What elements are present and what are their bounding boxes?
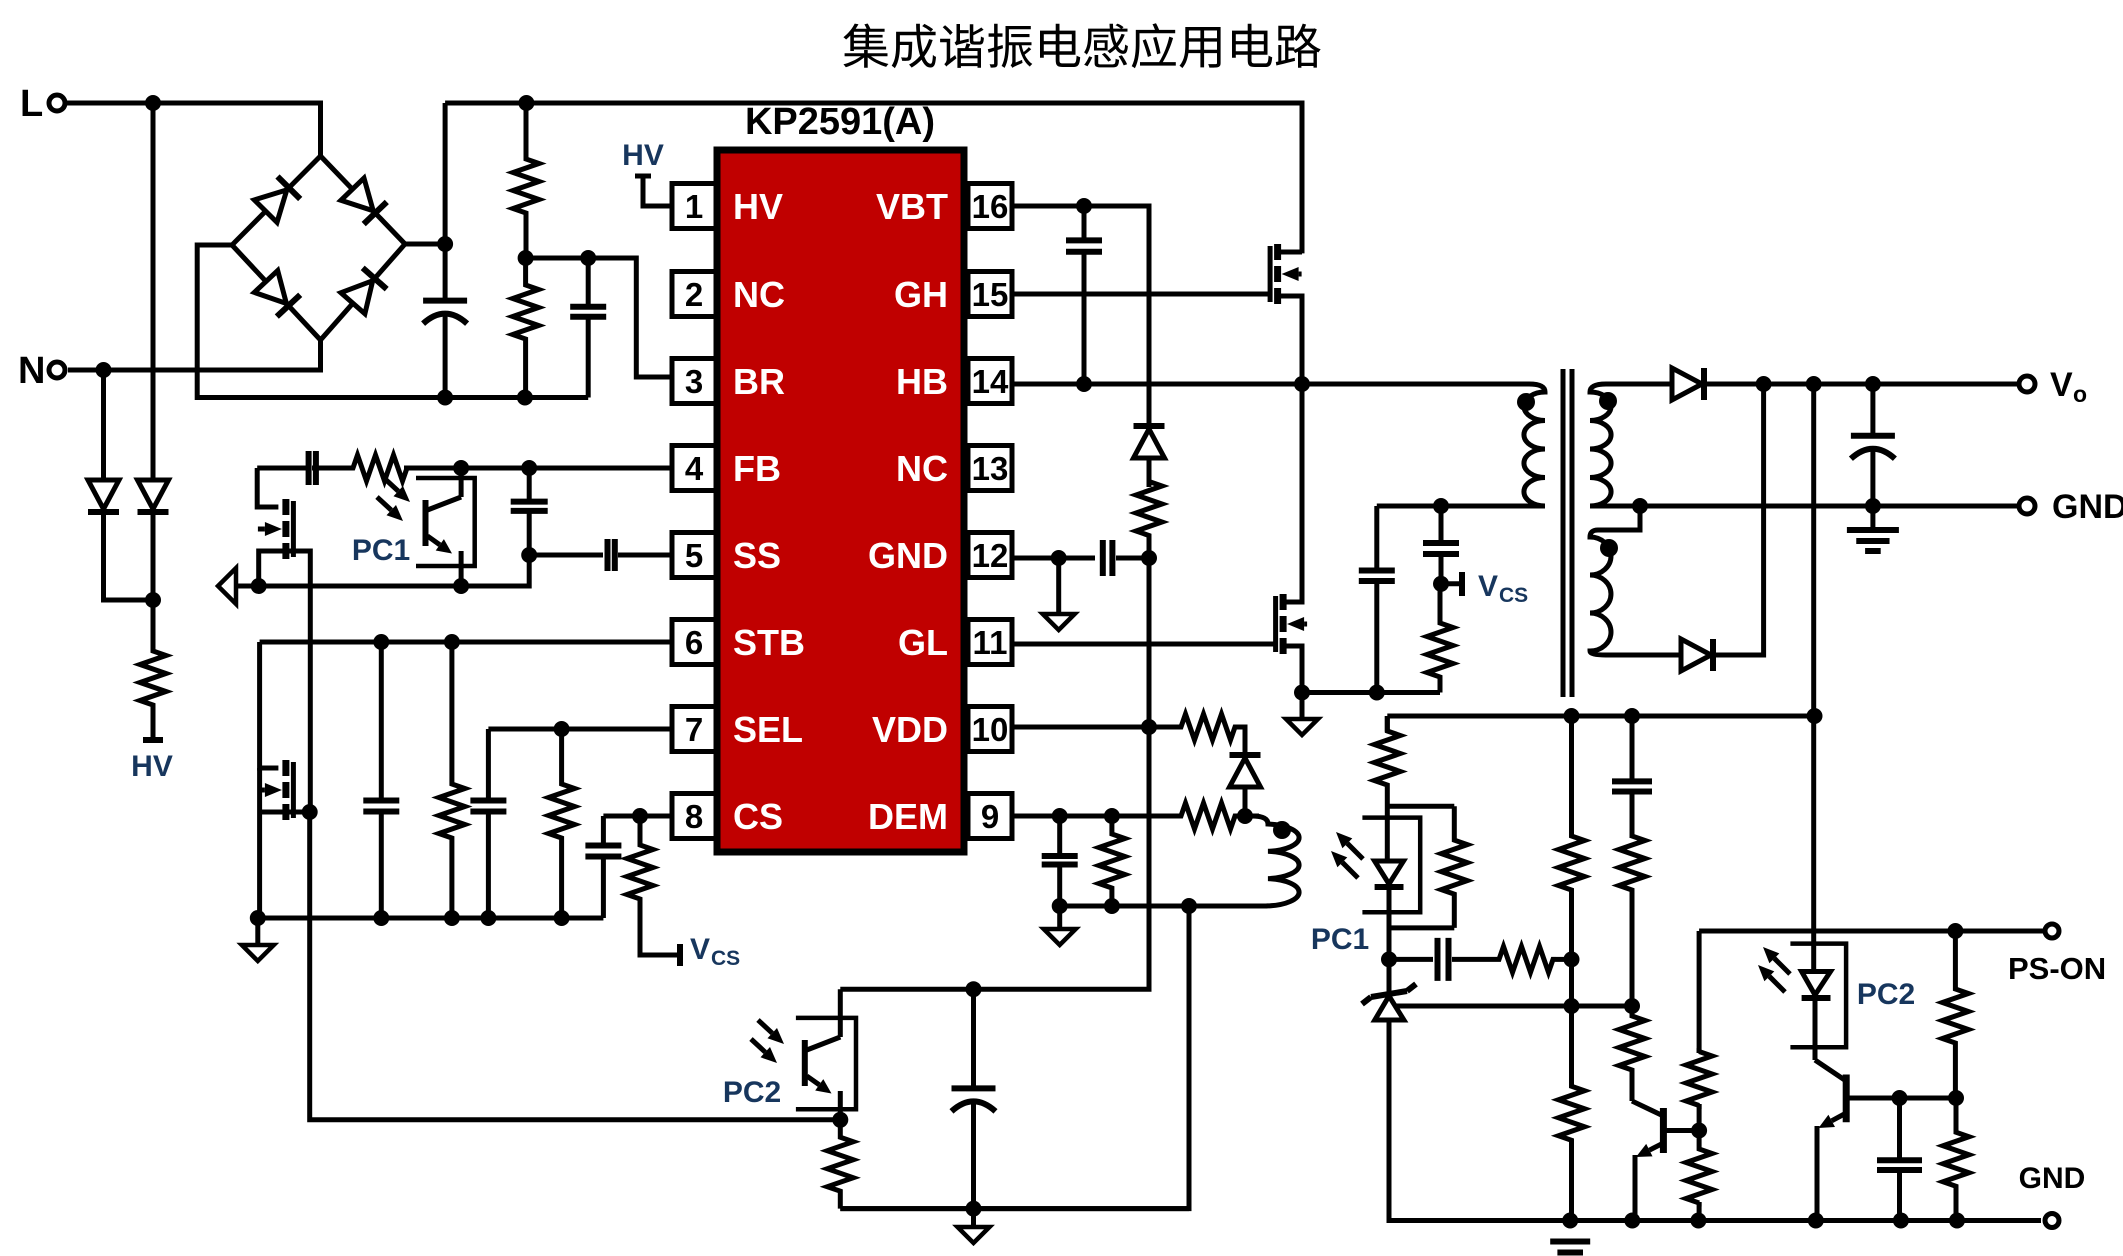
wire FB to Q2 drain bbox=[257, 468, 278, 507]
pin 12 box bbox=[968, 533, 1012, 578]
node Q2 source junction bbox=[251, 578, 267, 594]
wire aux drop bbox=[840, 906, 1189, 1209]
capacitor C6 bbox=[363, 642, 399, 918]
resistor R9 bbox=[1149, 714, 1243, 740]
svg-text:13: 13 bbox=[972, 450, 1009, 487]
node C18 top junction bbox=[966, 981, 982, 997]
svg-text:GND: GND bbox=[2019, 1162, 2086, 1195]
pin 5 name SS bbox=[733, 535, 781, 576]
wire DC+ vertical bbox=[443, 103, 448, 301]
pin 13 box bbox=[968, 446, 1012, 491]
svg-text:PC1: PC1 bbox=[1311, 923, 1369, 956]
svg-text:HV: HV bbox=[733, 186, 783, 227]
capacitor C3 series bbox=[257, 451, 316, 485]
pin 12 name GND bbox=[868, 535, 948, 576]
wire secondary top anode bbox=[1606, 382, 1672, 387]
resistor R16 bbox=[1496, 946, 1572, 972]
node Vo-D6 bbox=[1756, 376, 1772, 392]
resistor R3 bbox=[316, 455, 420, 481]
capacitor C4 bbox=[511, 468, 548, 555]
node Q3 gate junction bbox=[302, 804, 318, 820]
diode D6 bbox=[1681, 639, 1713, 671]
wire DEM to winding bbox=[1243, 814, 1259, 819]
svg-text:V: V bbox=[2050, 366, 2073, 404]
svg-text:FB: FB bbox=[733, 448, 781, 489]
transistor Q6 bbox=[1815, 1060, 1956, 1221]
wire VDD diode link bbox=[1243, 727, 1245, 758]
label PC1 secondary bbox=[1311, 923, 1369, 956]
resistor R7 to HV bbox=[140, 600, 166, 740]
node Q6 base R20 bbox=[1948, 1090, 1964, 1106]
ground secondary bbox=[1847, 506, 1899, 551]
wire SEL drop bbox=[486, 729, 491, 801]
wire GND rail secondary bbox=[1606, 504, 2017, 509]
terminal N bbox=[18, 350, 65, 392]
wire GND pin12 bbox=[1012, 556, 1095, 561]
LED PC2b bbox=[1802, 944, 1831, 1060]
wire bridge minus route bbox=[197, 245, 588, 398]
terminal L bbox=[20, 83, 65, 125]
wire Q2 gate bbox=[286, 551, 310, 812]
wire emitter rail bbox=[259, 555, 530, 586]
resistor R2 bbox=[513, 258, 539, 398]
node D4-DEM junction bbox=[1237, 808, 1253, 824]
pin 1 box bbox=[672, 184, 716, 229]
node rail C7 bbox=[480, 910, 496, 926]
svg-text:CS: CS bbox=[733, 796, 783, 837]
node RC-R13 junction bbox=[1564, 951, 1580, 967]
wire GH bbox=[1012, 292, 1271, 297]
svg-text:PC2: PC2 bbox=[723, 1076, 781, 1109]
ground pin12 bbox=[1043, 558, 1075, 630]
wire Vo sense drop bbox=[1811, 384, 1816, 944]
net HV at pin 1 bbox=[622, 139, 672, 206]
node VBT-C junction bbox=[1076, 198, 1092, 214]
pin 15 box bbox=[968, 272, 1012, 317]
node C2 top bbox=[580, 250, 596, 266]
wire Q4 drain bbox=[1283, 384, 1302, 602]
ground secondary rail bbox=[1550, 1242, 1590, 1256]
capacitor C16 series bbox=[1389, 938, 1496, 981]
node Q4 source junction bbox=[1294, 685, 1310, 701]
svg-text:PC2: PC2 bbox=[1857, 978, 1915, 1011]
LED PC1b bbox=[1375, 800, 1404, 959]
diode D5 bbox=[1672, 368, 1704, 400]
svg-text:GL: GL bbox=[898, 622, 948, 663]
node PC2a emitter junction bbox=[832, 1112, 848, 1128]
pin 1 name HV bbox=[733, 186, 783, 227]
node Vo-feedback bbox=[1806, 376, 1822, 392]
pin 6 name STB bbox=[733, 622, 805, 663]
wire VDD bbox=[1012, 725, 1149, 730]
wire source to sense bbox=[1302, 690, 1440, 695]
wire top rail bbox=[445, 103, 1302, 253]
wire PS-ON rail bbox=[1699, 929, 2044, 934]
pin 13 name NC bbox=[896, 448, 948, 489]
resistor R5 bbox=[549, 729, 575, 918]
pin 3 name BR bbox=[733, 361, 785, 402]
resistor R22 bbox=[1686, 1131, 1712, 1221]
pin 7 box bbox=[672, 707, 716, 752]
svg-text:SEL: SEL bbox=[733, 709, 803, 750]
wire PC1 led feed bbox=[1385, 716, 1390, 732]
pin 2 name NC bbox=[733, 274, 785, 315]
transistor Q1 bbox=[1270, 244, 1302, 304]
node Q6 base C17 bbox=[1892, 1090, 1908, 1106]
pin 5 box bbox=[672, 533, 716, 578]
wire signal ground rail bbox=[258, 916, 604, 921]
wire FB bbox=[404, 466, 672, 471]
node PC1 collector junction bbox=[453, 460, 469, 476]
aux winding polarity dot bbox=[1273, 821, 1291, 839]
terminal GND bottom bbox=[2019, 1162, 2086, 1228]
node rail R18 bbox=[1562, 1213, 1578, 1229]
wire Q3 gate bbox=[286, 810, 310, 815]
wire Q2 source bbox=[259, 551, 286, 586]
svg-text:PS-ON: PS-ON bbox=[2008, 951, 2106, 986]
node fb rail PC2 bbox=[1807, 708, 1823, 724]
pin 4 box bbox=[672, 446, 716, 491]
svg-text:NC: NC bbox=[896, 448, 948, 489]
wire Q1 source bbox=[1278, 296, 1302, 384]
svg-text:12: 12 bbox=[972, 537, 1009, 574]
capacitor C12 bbox=[1359, 506, 1395, 693]
wire secondary ground rail bbox=[1570, 1218, 2041, 1223]
PC1b light arrows bbox=[1331, 832, 1363, 878]
optocoupler PC1 outline bbox=[416, 478, 475, 566]
node Q5 base junction bbox=[1691, 1123, 1707, 1139]
label VCS left bbox=[690, 933, 740, 970]
svg-text:15: 15 bbox=[972, 276, 1009, 313]
PC2a light arrows bbox=[751, 1020, 784, 1063]
diode D2 bbox=[138, 103, 169, 600]
node aux rail drop bbox=[1181, 898, 1197, 914]
wire VBT chain mid bbox=[1147, 558, 1152, 727]
pin 4 name FB bbox=[733, 448, 781, 489]
resistor R18 bbox=[1559, 1006, 1585, 1221]
capacitor C9 bootstrap bbox=[1066, 206, 1102, 384]
svg-text:VBT: VBT bbox=[876, 186, 948, 227]
label PC2 secondary bbox=[1857, 978, 1915, 1011]
wire R13 mid bbox=[1569, 959, 1574, 1006]
node rail C17 bbox=[1893, 1213, 1909, 1229]
node HB-C9 bbox=[1076, 376, 1092, 392]
secondary top polarity dot bbox=[1599, 392, 1617, 410]
wire zener tap bbox=[1395, 1004, 1632, 1009]
svg-text:CS: CS bbox=[1499, 584, 1528, 607]
terminal Vo bbox=[2019, 366, 2087, 407]
node fb rail R13 bbox=[1564, 708, 1580, 724]
svg-text:11: 11 bbox=[973, 624, 1008, 661]
capacitor C8 bbox=[585, 816, 621, 918]
svg-text:PC1: PC1 bbox=[352, 534, 410, 567]
node rail-R1 junction bbox=[518, 95, 534, 111]
svg-text:14: 14 bbox=[972, 363, 1009, 400]
node GND-C14 bbox=[1865, 498, 1881, 514]
svg-text:VDD: VDD bbox=[872, 709, 948, 750]
node rail Q5e bbox=[1624, 1213, 1640, 1229]
svg-text:NC: NC bbox=[733, 274, 785, 315]
resistor R21 bbox=[1686, 1052, 1712, 1131]
svg-text:HV: HV bbox=[622, 139, 664, 172]
capacitor C18 bbox=[952, 989, 996, 1208]
diode D3 bbox=[1134, 426, 1165, 487]
transistor Q5 bbox=[1632, 1101, 1699, 1221]
pin 9 name DEM bbox=[868, 796, 948, 837]
node rail R4 bbox=[444, 910, 460, 926]
wire standby rail bbox=[310, 812, 841, 1120]
svg-text:STB: STB bbox=[733, 622, 805, 663]
pin 7 name SEL bbox=[733, 709, 803, 750]
svg-text:o: o bbox=[2073, 381, 2087, 407]
diode D4 bbox=[1230, 755, 1261, 816]
bridge diode D-BR bbox=[341, 268, 387, 314]
capacitor C11 bbox=[1042, 816, 1078, 906]
wire SS bbox=[529, 553, 603, 558]
net arrow left bbox=[218, 568, 259, 604]
node SEL-R junction bbox=[554, 721, 570, 737]
net HV bottom bbox=[131, 740, 173, 783]
node DEM-C11 junction bbox=[1052, 808, 1068, 824]
transformer T1 secondary top bbox=[1590, 384, 1611, 506]
node VCS junction bbox=[1433, 576, 1449, 592]
node DC+ junction bbox=[437, 236, 453, 252]
node GND-sec2 bbox=[1632, 498, 1648, 514]
svg-text:4: 4 bbox=[685, 450, 704, 487]
resistor R24 bbox=[827, 1120, 853, 1209]
bridge diode D-BL bbox=[254, 271, 300, 317]
transistor Q4 bbox=[1276, 594, 1308, 654]
net VCS right bbox=[1441, 570, 1528, 607]
resistor R8 bbox=[1136, 459, 1162, 558]
IC U1 name bbox=[745, 101, 935, 143]
optocoupler PC1b outline bbox=[1362, 818, 1420, 913]
svg-text:6: 6 bbox=[685, 624, 703, 661]
svg-text:KP2591(A): KP2591(A) bbox=[745, 101, 935, 143]
pin 14 name HB bbox=[896, 361, 948, 402]
optocoupler PC2a outline bbox=[796, 1018, 856, 1109]
wire N rail bbox=[68, 340, 321, 370]
pin 10 box bbox=[968, 707, 1012, 752]
svg-text:7: 7 bbox=[685, 711, 703, 748]
wire PSON drop bbox=[1697, 931, 1702, 1053]
resistor R15 parallel bbox=[1389, 806, 1467, 928]
resistor R1 bbox=[513, 103, 539, 258]
wire Q1 drain bbox=[1278, 250, 1302, 255]
pin 2 box bbox=[672, 272, 716, 317]
wire SEL bbox=[488, 727, 672, 732]
capacitor C1 bulk bbox=[423, 301, 467, 398]
bridge diode D-TL bbox=[254, 177, 300, 223]
pin 3 box bbox=[672, 359, 716, 404]
node sense junction bbox=[1369, 685, 1385, 701]
svg-text:SS: SS bbox=[733, 535, 781, 576]
svg-text:GND: GND bbox=[2052, 488, 2123, 526]
resistor R12 sense bbox=[1427, 584, 1453, 693]
capacitor C14 output bbox=[1851, 384, 1895, 506]
svg-text:9: 9 bbox=[981, 798, 999, 835]
inductor L-aux demag bbox=[1189, 816, 1299, 906]
node R2 bottom bbox=[517, 390, 533, 406]
wire bridge plus bbox=[405, 242, 445, 247]
node D1-D2 junction bbox=[145, 592, 161, 608]
secondary bottom polarity dot bbox=[1600, 539, 1618, 557]
resistor R20 bbox=[1942, 931, 1968, 1098]
wire VBT chain low bbox=[840, 727, 1149, 989]
resistor R14 bbox=[1374, 716, 1400, 800]
wire CS bbox=[603, 814, 672, 819]
node PC1b cathode bbox=[1381, 951, 1397, 967]
node rail Q6e bbox=[1808, 1213, 1824, 1229]
diode D1 bbox=[88, 370, 153, 600]
svg-text:10: 10 bbox=[972, 711, 1009, 748]
svg-text:8: 8 bbox=[685, 798, 703, 835]
svg-text:GH: GH bbox=[894, 274, 948, 315]
transformer core bbox=[1563, 369, 1572, 697]
pin 15 name GH bbox=[894, 274, 948, 315]
node rail R23 bbox=[1949, 1213, 1965, 1229]
capacitor C15 bbox=[1612, 716, 1652, 838]
pin 9 box bbox=[968, 794, 1012, 839]
resistor R4 bbox=[439, 642, 465, 918]
wire pc2 bottom rail bbox=[840, 1206, 1189, 1211]
capacitor C13 bbox=[1423, 506, 1459, 584]
node C4 top bbox=[521, 460, 537, 476]
node aux rail R11 bbox=[1104, 898, 1120, 914]
ground aux bbox=[1044, 906, 1076, 945]
ground pc2 rail bbox=[958, 1209, 990, 1243]
svg-text:V: V bbox=[690, 933, 710, 966]
node tap R13 bbox=[1564, 998, 1580, 1014]
ground primary signal bbox=[242, 918, 274, 961]
optocoupler PC1 transistor bbox=[426, 468, 462, 586]
pin 6 box bbox=[672, 620, 716, 665]
svg-text:HB: HB bbox=[896, 361, 948, 402]
wire aux return rail bbox=[1060, 904, 1189, 909]
resistor R10 bbox=[1173, 803, 1243, 829]
resistor R23 bbox=[1943, 1098, 1969, 1221]
wire Q3 source lead bbox=[259, 810, 286, 815]
wire BR node bbox=[526, 258, 672, 377]
node fb rail C15 bbox=[1624, 708, 1640, 724]
node Vo-C14 bbox=[1865, 376, 1881, 392]
node rail Q3 bbox=[250, 910, 266, 926]
node DEM-R junction bbox=[1104, 808, 1120, 824]
pin 8 name CS bbox=[733, 796, 783, 837]
node VBT chain-VDD junction bbox=[1141, 719, 1157, 735]
node rail R22 bbox=[1690, 1213, 1706, 1229]
svg-text:HV: HV bbox=[131, 750, 173, 783]
node aux rail C11 bbox=[1052, 898, 1068, 914]
node pin12 gnd junction bbox=[1051, 550, 1067, 566]
optocoupler PC2b outline bbox=[1790, 944, 1846, 1048]
wire STB to Q3 bbox=[260, 642, 279, 768]
node rail C6 bbox=[373, 910, 389, 926]
node R1-R2 junction bbox=[518, 250, 534, 266]
node VBT chain-C10 junction bbox=[1141, 550, 1157, 566]
resistor R13 bbox=[1559, 716, 1585, 959]
resistor R6 to VCS bbox=[627, 816, 680, 966]
wire L rail bbox=[67, 103, 321, 156]
terminal GND secondary bbox=[2019, 488, 2123, 526]
svg-text:1: 1 bbox=[685, 188, 703, 225]
pin 11 box bbox=[968, 620, 1012, 665]
terminal PS-ON bbox=[2008, 924, 2106, 986]
PC2b light arrows bbox=[1758, 947, 1790, 992]
node C1 bottom bbox=[437, 390, 453, 406]
label PC1 bbox=[352, 534, 410, 567]
resistor R11 bbox=[1099, 816, 1125, 906]
node primary return junction bbox=[1433, 498, 1449, 514]
transistor Q2 bbox=[258, 499, 294, 559]
svg-text:3: 3 bbox=[685, 363, 703, 400]
pin 11 name GL bbox=[898, 622, 948, 663]
capacitor C5 series bbox=[608, 539, 673, 571]
pin 16 box bbox=[968, 184, 1012, 229]
optocoupler PC1 light arrows bbox=[377, 478, 410, 521]
svg-text:2: 2 bbox=[685, 276, 703, 313]
ground Q4 source bbox=[1286, 693, 1318, 736]
node STB-C junction bbox=[373, 634, 389, 650]
node N-D1 junction bbox=[96, 362, 112, 378]
wire Q3 source bbox=[257, 768, 262, 918]
wire Vo rail bbox=[1704, 382, 2017, 387]
node PSON-R20 bbox=[1947, 923, 1963, 939]
transformer T1 secondary bottom bbox=[1590, 506, 1681, 655]
node tap R17 bbox=[1624, 998, 1640, 1014]
wire DEM bbox=[1012, 814, 1173, 819]
wire feedback rail bbox=[1387, 714, 1814, 719]
wire D6 riser bbox=[1713, 384, 1764, 655]
wire STB bbox=[260, 640, 672, 645]
zener ZD1 bbox=[1362, 959, 1570, 1220]
svg-text:CS: CS bbox=[711, 947, 740, 970]
node C4 bottom bbox=[521, 547, 537, 563]
pin 10 name VDD bbox=[872, 709, 948, 750]
svg-text:V: V bbox=[1478, 570, 1498, 603]
node CS-R junction bbox=[632, 808, 648, 824]
svg-text:DEM: DEM bbox=[868, 796, 948, 837]
transformer T1 primary bbox=[1377, 384, 1545, 506]
resistor R17 upper bbox=[1619, 792, 1645, 1007]
node rail R5 bbox=[554, 910, 570, 926]
bridge diode D-TR bbox=[341, 178, 387, 224]
node L-D2 junction bbox=[145, 95, 161, 111]
svg-text:L: L bbox=[20, 83, 43, 125]
svg-text:5: 5 bbox=[685, 537, 703, 574]
transistor Q3 bbox=[258, 760, 294, 820]
pin 14 box bbox=[968, 359, 1012, 404]
capacitor C2 bbox=[570, 258, 606, 398]
optocoupler PC2a transistor bbox=[805, 989, 841, 1120]
wire GL bbox=[1012, 642, 1276, 647]
pin 8 box bbox=[672, 794, 716, 839]
primary polarity dot bbox=[1517, 393, 1535, 411]
label PC2 primary bbox=[723, 1076, 781, 1109]
node HB-Q1 bbox=[1294, 376, 1310, 392]
title 集成谐振电感应用电路 bbox=[843, 23, 1320, 68]
capacitor C7 bbox=[470, 801, 506, 919]
wire VBT bbox=[1012, 206, 1149, 427]
capacitor C17 bbox=[1877, 1098, 1922, 1221]
svg-text:16: 16 bbox=[972, 188, 1009, 225]
pin 16 name VBT bbox=[876, 186, 948, 227]
resistor R19 bbox=[1619, 1006, 1645, 1101]
svg-text:N: N bbox=[18, 350, 45, 392]
svg-text:GND: GND bbox=[868, 535, 948, 576]
node STB-R junction bbox=[444, 634, 460, 650]
node C18 bottom bbox=[966, 1201, 982, 1217]
